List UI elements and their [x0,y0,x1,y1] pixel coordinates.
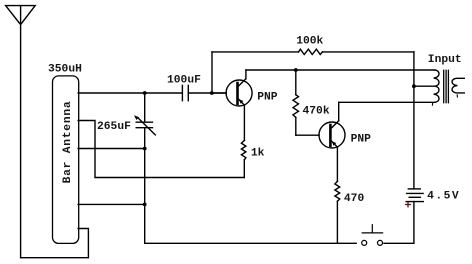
svg-text:Bar Antenna: Bar Antenna [62,101,74,184]
svg-text:PNP: PNP [257,92,278,104]
svg-text:350uH: 350uH [48,63,82,75]
svg-text:100uF: 100uF [167,75,201,87]
svg-text:100k: 100k [296,35,323,47]
svg-text:Input: Input [428,54,462,66]
svg-text:265uF: 265uF [97,121,131,133]
svg-text:PNP: PNP [351,134,372,146]
svg-text:470k: 470k [303,106,330,118]
svg-text:1k: 1k [251,148,265,160]
svg-text:470: 470 [344,193,365,205]
svg-text:4.5V: 4.5V [427,190,460,202]
